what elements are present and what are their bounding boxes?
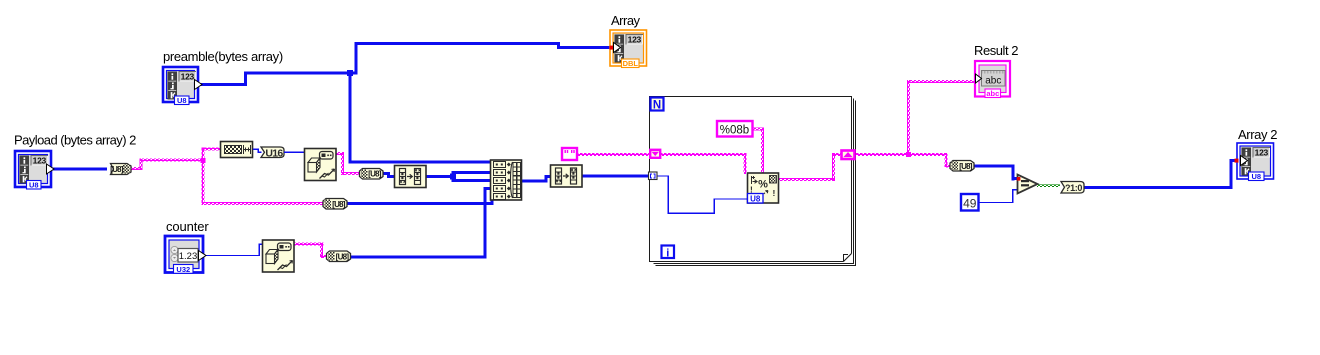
wire reverse-array 1 to build-array inputs 2 and 3: [426, 171, 492, 182]
svg-text:[U8]: [U8]: [959, 162, 973, 171]
svg-text:U8: U8: [1252, 172, 1262, 181]
node C junction dot on payload string wire: [201, 158, 206, 163]
svg-text:?1:0: ?1:0: [1065, 183, 1082, 193]
array indicator Array (DBL): [610, 30, 647, 68]
string indicator Result 2: [975, 61, 1010, 98]
svg-text:U32: U32: [176, 265, 190, 274]
svg-text:[U8]: [U8]: [332, 200, 346, 209]
svg-text:1.23: 1.23: [179, 251, 198, 262]
svg-text:U16: U16: [265, 148, 283, 160]
wire format string constant %08b to format node (pink): [753, 128, 764, 175]
string constant %08b: [717, 121, 753, 137]
svg-text:123: 123: [628, 35, 642, 45]
node D junction dot on result string wire: [906, 152, 911, 157]
wire U16 input step: [253, 149, 305, 154]
svg-text:123: 123: [33, 156, 47, 166]
wire string-to-byte-array 4 to equals node: [974, 165, 1019, 181]
svg-text:%: %: [758, 179, 768, 191]
flatten-to-string F2: [263, 240, 295, 272]
format-value node inside loop: [748, 173, 779, 204]
wire preamble to Array indicator: [199, 42, 610, 86]
loop input tunnel: [649, 172, 658, 180]
wire boolean-to-01 to Array 2 indicator: [1084, 159, 1237, 189]
svg-text:Array 2: Array 2: [1238, 127, 1277, 142]
node B junction dot on reverse-array output: [450, 174, 456, 180]
reverse-1d-array R2: [551, 165, 583, 187]
numeric constant 49: [961, 194, 979, 211]
string-to-byte-array U3 (counter path): [327, 251, 351, 262]
flatten-to-string F1: [305, 149, 337, 181]
string-to-byte-array U5 (payload string to build-array input 5): [323, 199, 347, 210]
string-to-byte-array U4 (result path): [950, 161, 974, 172]
svg-text:U8: U8: [29, 181, 39, 190]
svg-text:123: 123: [1255, 148, 1269, 158]
wire format node to right shift register (pink): [779, 153, 842, 181]
to-U16 conversion bullet: [261, 147, 284, 160]
svg-text:U8: U8: [177, 96, 187, 105]
svg-text:[U8]: [U8]: [110, 165, 124, 174]
svg-text:[U8]: [U8]: [368, 170, 382, 179]
numeric control counter: [165, 236, 206, 274]
string-length function: [221, 142, 253, 158]
array control Payload (bytes array) 2: [15, 151, 54, 190]
wire preamble branch to build-array input 1: [349, 72, 492, 164]
svg-text:counter: counter: [166, 219, 209, 234]
svg-text:abc: abc: [985, 76, 1001, 87]
svg-text:[U8]: [U8]: [336, 252, 350, 261]
right shift register: [842, 151, 855, 160]
svg-text:N: N: [653, 100, 661, 112]
wire left shift register to format node (pink): [661, 153, 747, 174]
empty string constant: [562, 148, 577, 160]
wire counter byte array to build-array input 4: [350, 187, 492, 259]
coercion dot on Array input: [610, 46, 614, 50]
wire build-array to reverse-array 2: [522, 175, 552, 183]
wire payload to byte-array-to-string: [52, 168, 107, 171]
svg-text:U8: U8: [750, 195, 761, 204]
svg-text:123: 123: [181, 72, 195, 82]
wire reverse-array 2 to loop tunnel: [582, 175, 650, 178]
wire tunnel element to format node inside loop: [657, 175, 748, 214]
coercion dot on equals input: [1017, 177, 1021, 181]
svg-text:Payload (bytes array) 2: Payload (bytes array) 2: [14, 133, 136, 148]
svg-text:preamble(bytes array): preamble(bytes array): [163, 49, 283, 64]
wire counter to flatten 2: [203, 243, 264, 256]
svg-text:Result 2: Result 2: [974, 43, 1018, 58]
boolean-to-01 select node: [1061, 182, 1084, 194]
build-array function: [491, 160, 522, 200]
for-loop N frame: [650, 97, 856, 266]
wire 49 constant to equals node: [979, 189, 1018, 203]
wire flatten 2 to string-to-byte-array 3 (pink): [294, 243, 326, 259]
wire string-to-byte-array to reverse-array 1: [383, 172, 396, 178]
coercion dot on Array 2 input: [1235, 159, 1239, 163]
wire loop result to Result 2 indicator and string-to-byte-array 4 (pink): [856, 80, 974, 168]
loop iteration terminal i: [662, 246, 675, 260]
svg-text:Array: Array: [611, 13, 641, 28]
equals comparison node: [1017, 175, 1038, 194]
array indicator Array 2 (U8): [1235, 143, 1274, 181]
wire payload byte array to build-array input 5: [347, 196, 494, 205]
svg-text:abc: abc: [986, 89, 999, 98]
array control preamble(bytes array): [163, 67, 202, 105]
wire equals to boolean-to-01 (green boolean): [1037, 184, 1060, 187]
byte-array-to-string U1 (after Payload): [110, 164, 131, 175]
left shift register: [650, 150, 660, 158]
loop count terminal N: [651, 98, 664, 112]
svg-text:DBL: DBL: [623, 59, 639, 68]
svg-text:%08b: %08b: [720, 125, 749, 137]
wire empty-string constant to left shift register (pink): [578, 153, 649, 156]
reverse-1d-array R1: [395, 166, 427, 188]
node A junction dot on preamble wire: [347, 70, 353, 76]
wire flatten 1 to string-to-byte-array 2 (pink): [336, 152, 359, 175]
string-to-byte-array U2: [360, 169, 384, 180]
svg-text:!: !: [773, 188, 776, 198]
svg-text:49: 49: [963, 197, 977, 211]
wire payload string to string-length and to string-to-byte-array 2 (pink): [131, 148, 323, 206]
svg-text:i: i: [666, 248, 669, 260]
